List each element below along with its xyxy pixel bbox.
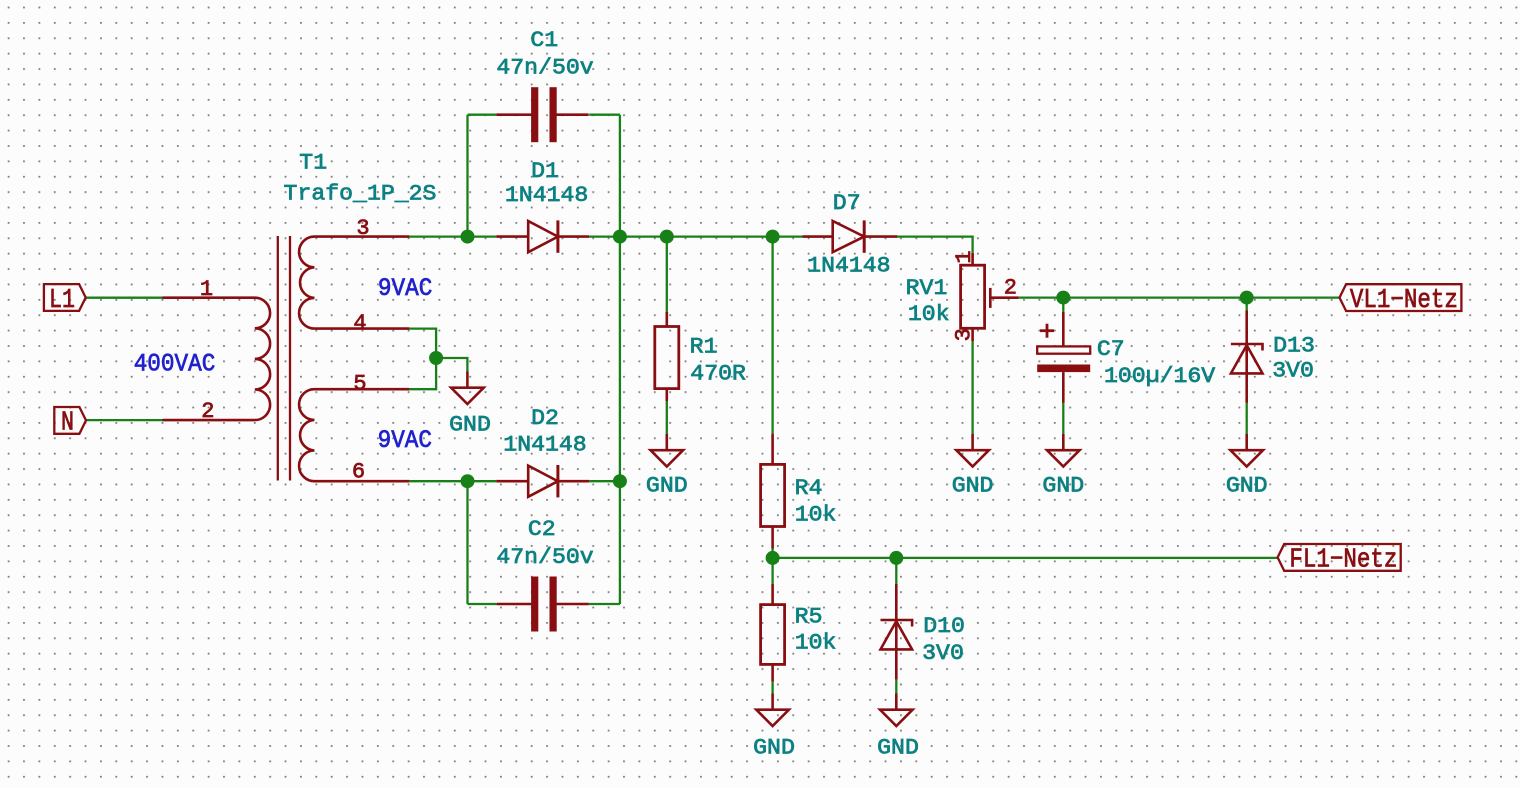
svg-text:Trafo_1P_2S: Trafo_1P_2S: [284, 182, 437, 207]
svg-text:10k: 10k: [795, 630, 837, 655]
zener diode D13: [1231, 311, 1263, 403]
wire C2 left horizontal: [468, 603, 498, 605]
wire RV1 pin 2 rail to VL1: [1019, 296, 1340, 298]
net label 400VAC: [134, 350, 216, 379]
svg-text:5: 5: [353, 371, 366, 396]
wire R4 bottom: [771, 549, 773, 558]
junction R4 top: [766, 230, 780, 244]
wire R5 bottom to ground: [771, 682, 773, 694]
svg-text:10k: 10k: [795, 502, 837, 527]
pin number 6: [352, 460, 365, 485]
capacitor C7 reference: [1097, 337, 1125, 362]
wire C1 right horizontal: [589, 114, 620, 116]
svg-text:D10: D10: [923, 614, 965, 639]
wire C2 right horizontal: [589, 603, 620, 605]
wire D2 cathode to vertical: [589, 480, 620, 482]
wire T1 pin 6 to D2 anode: [409, 480, 496, 482]
junction center tap: [429, 351, 443, 365]
ground at D10: [880, 694, 913, 727]
svg-text:GND: GND: [753, 736, 795, 761]
capacitor C1: [496, 87, 588, 142]
transformer T1 primary winding: [163, 298, 271, 420]
diode D1: [496, 220, 589, 252]
svg-text:47n/50v: 47n/50v: [496, 55, 593, 80]
svg-text:GND: GND: [449, 413, 491, 438]
diode D7: [803, 220, 898, 252]
ground label at D13: [1226, 474, 1268, 499]
capacitor C2 value: [496, 545, 593, 570]
svg-text:GND: GND: [877, 736, 919, 761]
svg-text:D2: D2: [531, 406, 559, 431]
zener diode D10 reference: [923, 614, 965, 639]
svg-text:4: 4: [353, 311, 366, 336]
ground at R5: [756, 694, 789, 727]
resistor R1: [655, 312, 679, 401]
hierarchical label N: [54, 407, 86, 439]
svg-text:2: 2: [201, 399, 214, 424]
wire D13 bottom to ground: [1246, 403, 1248, 434]
svg-text:1: 1: [200, 277, 213, 302]
wire C1 left vertical: [466, 115, 468, 237]
pin number 1: [200, 277, 213, 302]
potentiometer RV1: [961, 253, 1019, 341]
pin number 3: [356, 216, 369, 241]
wire D1 cathode rail to D7 anode: [589, 235, 802, 237]
resistor R4: [761, 434, 785, 549]
pin number 5: [353, 371, 366, 396]
svg-text:D13: D13: [1273, 333, 1315, 358]
ground label at RV1: [952, 474, 994, 499]
svg-text:2: 2: [1004, 275, 1017, 300]
ground at C7: [1047, 434, 1080, 467]
ground label at C7: [1042, 474, 1084, 499]
transformer T1 secondary winding 3-4: [299, 237, 409, 329]
resistor R4 value: [795, 502, 837, 527]
wire R5 top: [771, 558, 773, 584]
svg-text:1: 1: [952, 250, 977, 263]
svg-text:GND: GND: [1226, 474, 1268, 499]
resistor R4 reference: [795, 476, 823, 501]
wire C1 left branch: [468, 114, 497, 116]
pin number 2 of RV1: [1004, 275, 1017, 300]
diode D2 reference: [531, 406, 559, 431]
svg-text:R4: R4: [795, 476, 823, 501]
ground label at center tap: [449, 413, 491, 438]
ground label at D10: [877, 736, 919, 761]
junction R5 top: [766, 551, 780, 565]
ground at center tap: [451, 372, 484, 405]
wire C1 right vertical down to D2 cathode: [619, 115, 621, 482]
wire D7 cathode to RV1 pin 1: [897, 237, 972, 253]
junction R1 top: [660, 230, 674, 244]
junction D2 anode: [461, 474, 475, 488]
svg-text:9VAC: 9VAC: [378, 274, 432, 303]
wire T1 pin 3 to D1 anode: [409, 235, 496, 237]
wire RV1 pin 3 to ground: [971, 341, 973, 434]
svg-text:T1: T1: [299, 150, 327, 175]
junction C7 top: [1056, 291, 1070, 305]
diode D7 reference: [833, 191, 861, 216]
pin number 3 of RV1: [952, 328, 977, 341]
svg-text:GND: GND: [1042, 474, 1084, 499]
svg-text:3: 3: [952, 328, 977, 341]
svg-text:L1: L1: [49, 286, 75, 316]
pin number 2: [201, 399, 214, 424]
zener diode D10: [881, 584, 913, 680]
wire C7 top: [1062, 298, 1064, 312]
svg-text:C1: C1: [530, 28, 558, 53]
wire FL1 rail: [773, 557, 1278, 559]
ground label at R1: [646, 474, 688, 499]
diode D7 value: [807, 253, 890, 278]
junction D1 cathode: [613, 230, 627, 244]
hierarchical label VL1-Netz: [1340, 284, 1462, 316]
hierarchical label L1: [44, 284, 86, 316]
svg-text:GND: GND: [646, 474, 688, 499]
diode D1 value: [505, 183, 588, 208]
svg-text:R5: R5: [795, 605, 823, 630]
capacitor C1 value: [496, 55, 593, 80]
wire N to T1 pin 2: [86, 419, 163, 421]
junction D13 top: [1240, 291, 1254, 305]
svg-text:47n/50v: 47n/50v: [496, 545, 593, 570]
resistor R1 reference: [690, 334, 718, 359]
capacitor C2: [497, 577, 589, 632]
svg-text:400VAC: 400VAC: [134, 350, 216, 379]
wire T1 pin 4 to center tap: [409, 329, 436, 358]
resistor R5 value: [795, 630, 837, 655]
svg-text:C2: C2: [528, 517, 556, 542]
svg-text:100µ/16V: 100µ/16V: [1104, 364, 1216, 389]
wire C2 left vertical: [466, 481, 468, 604]
transformer T1 secondary winding 5-6: [299, 389, 409, 481]
diode D1 reference: [531, 159, 559, 184]
diode D2: [496, 465, 589, 497]
pin number 4: [353, 311, 366, 336]
svg-text:3V0: 3V0: [1272, 359, 1314, 384]
capacitor C1 reference: [530, 28, 558, 53]
ground at R1: [651, 434, 684, 467]
svg-text:FL1−Netz: FL1−Netz: [1289, 546, 1397, 576]
svg-text:GND: GND: [952, 474, 994, 499]
transformer T1 reference: [299, 150, 327, 175]
ground at D13: [1230, 434, 1263, 467]
capacitor C2 reference: [528, 517, 556, 542]
capacitor C7 value: [1104, 364, 1216, 389]
wire T1 pin 5 to center tap: [409, 358, 436, 389]
resistor R5: [761, 584, 785, 682]
wire L1 to T1 pin 1: [86, 297, 163, 299]
wire R4 top: [771, 237, 773, 434]
potentiometer RV1 value: [908, 302, 950, 327]
transformer T1 core: [278, 236, 290, 481]
zener diode D13 value: [1272, 359, 1314, 384]
wire R1 bottom to ground: [666, 401, 668, 434]
diode D2 value: [503, 432, 586, 457]
pin number 1 of RV1: [952, 250, 977, 263]
net label 9VAC lower: [378, 426, 432, 455]
svg-text:9VAC: 9VAC: [378, 426, 432, 455]
ground at RV1: [956, 434, 989, 467]
svg-text:3: 3: [356, 216, 369, 241]
svg-text:1N4148: 1N4148: [503, 432, 586, 457]
svg-text:VL1−Netz: VL1−Netz: [1350, 286, 1458, 316]
svg-text:470R: 470R: [690, 361, 746, 386]
net label 9VAC upper: [378, 274, 432, 303]
wire D10 top: [895, 558, 897, 584]
svg-text:1N4148: 1N4148: [505, 183, 588, 208]
resistor R1 value: [690, 361, 746, 386]
potentiometer RV1 reference: [906, 276, 948, 301]
svg-text:D7: D7: [833, 191, 861, 216]
wire C2 right vertical: [619, 481, 621, 604]
svg-text:C7: C7: [1097, 337, 1125, 362]
wire D10 bottom to ground: [895, 680, 897, 694]
svg-text:1N4148: 1N4148: [807, 253, 890, 278]
svg-text:3V0: 3V0: [922, 641, 964, 666]
svg-text:N: N: [61, 409, 74, 439]
wire C7 bottom to ground: [1062, 403, 1064, 434]
hierarchical label FL1-Netz: [1278, 544, 1401, 576]
svg-text:R1: R1: [690, 334, 718, 359]
resistor R5 reference: [795, 605, 823, 630]
ground label at R5: [753, 736, 795, 761]
svg-text:10k: 10k: [908, 302, 950, 327]
svg-text:RV1: RV1: [906, 276, 948, 301]
wire center tap to ground: [436, 358, 467, 372]
junction D2 cathode: [613, 474, 627, 488]
svg-text:D1: D1: [531, 159, 559, 184]
junction C1 left: [461, 230, 475, 244]
zener diode D13 reference: [1273, 333, 1315, 358]
zener diode D10 value: [922, 641, 964, 666]
transformer T1 value: [284, 182, 437, 207]
capacitor C7: [1037, 312, 1090, 403]
wire D13 top: [1246, 298, 1248, 311]
wire R1 top: [666, 237, 668, 312]
svg-text:6: 6: [352, 460, 365, 485]
junction D10 top: [889, 551, 903, 565]
